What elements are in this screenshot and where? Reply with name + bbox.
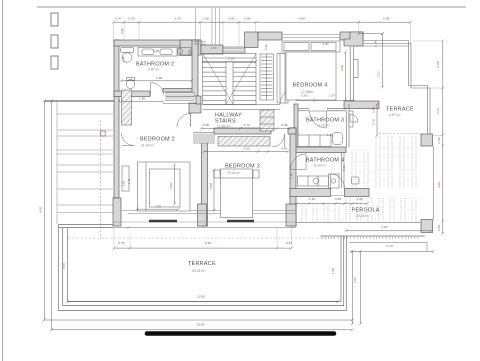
- svg-text:1.80: 1.80: [203, 17, 209, 21]
- svg-text:1,00: 1,00: [353, 277, 357, 283]
- svg-text:12,38m²: 12,38m²: [301, 90, 314, 94]
- dim SE right vertical: [351, 252, 353, 324]
- dim pergola top chain: [297, 203, 368, 205]
- dim bedroom2 bed 2.78: [137, 208, 178, 210]
- svg-text:0.83: 0.83: [301, 94, 307, 98]
- svg-text:2.38: 2.38: [383, 17, 389, 21]
- svg-text:0.70: 0.70: [372, 119, 376, 125]
- svg-text:2.80: 2.80: [228, 57, 234, 61]
- bathroom3 west wall: [294, 104, 298, 152]
- red marker box on left roof: [101, 131, 105, 136]
- chimney line d: [219, 8, 221, 45]
- svg-text:6,90: 6,90: [205, 241, 211, 245]
- svg-text:1.20: 1.20: [356, 197, 362, 201]
- bedroom3 east wall: [290, 128, 296, 226]
- svg-text:BEDROOM 4: BEDROOM 4: [293, 83, 328, 89]
- dim terrace 15.80 b: [52, 329, 353, 331]
- bedroom3 wardrobe hatch: [218, 137, 270, 147]
- dim right 2.28/2.16: [442, 41, 444, 234]
- dim terrace top 0.75/6.90/0.67: [114, 247, 291, 249]
- pergola SE column: [421, 220, 433, 233]
- west exterior wall: [114, 40, 119, 198]
- bathroom2 south wall: [114, 91, 150, 97]
- svg-text:20,46 m²: 20,46 m²: [356, 214, 370, 218]
- dim chain top: [114, 21, 411, 23]
- svg-text:3.38: 3.38: [209, 183, 213, 189]
- louver line: [57, 129, 113, 131]
- svg-text:1.35: 1.35: [290, 173, 294, 179]
- bed bedroom4 body: [286, 52, 336, 100]
- dim bedroom3 bed vertical: [213, 170, 215, 210]
- bathroom3 terrace door arc: [350, 114, 358, 122]
- south wall of bath wing west: [290, 189, 331, 197]
- bedroom2 entry door arc: [122, 133, 135, 146]
- bathroom2 door arc: [151, 83, 164, 96]
- svg-text:3,70: 3,70: [62, 263, 66, 269]
- svg-text:2.53: 2.53: [243, 147, 249, 151]
- svg-text:15,80: 15,80: [197, 322, 205, 326]
- terrace SE lower edge: [349, 243, 427, 252]
- louver line: [57, 164, 113, 166]
- bedroom2-bedroom3 divider wall: [202, 134, 208, 226]
- svg-text:3,26: 3,26: [437, 182, 441, 188]
- svg-text:0.80: 0.80: [244, 17, 250, 21]
- svg-text:1.40: 1.40: [153, 49, 159, 53]
- bathroom2 south wall east part: [163, 89, 196, 93]
- dim bedroom2 1.98: [122, 101, 164, 103]
- svg-text:11.88 m²: 11.88 m²: [217, 125, 231, 129]
- dim bathroom3 top 0.83/1.87: [297, 100, 353, 102]
- bathroom2 east wall / stair void wall: [192, 40, 198, 96]
- bedroom2 wardrobe hatch: [122, 90, 132, 125]
- svg-text:3,70: 3,70: [387, 244, 393, 248]
- upper terrace dashed edge: [379, 133, 421, 135]
- bedroom4 door arc: [280, 89, 296, 105]
- dim left outer: [51, 101, 53, 330]
- bedroom4 east window wall: [350, 46, 358, 101]
- hall-bedroom2 door stub: [189, 103, 201, 113]
- pergola bottom beam: [296, 222, 421, 224]
- bedroom4 north wall east pier: [340, 32, 363, 40]
- hall lower shelves: [260, 110, 274, 131]
- svg-text:3,60: 3,60: [381, 225, 387, 229]
- bidet bathroom2: [127, 78, 135, 81]
- terrace parapet mid: [63, 228, 344, 306]
- stair treads: [203, 57, 257, 59]
- pergola door sill: [331, 195, 345, 197]
- dim right 0.88/0.70: [376, 104, 378, 136]
- svg-text:0.36: 0.36: [437, 137, 441, 143]
- terrace NE parapet inner: [363, 44, 430, 135]
- svg-text:TERRACE: TERRACE: [386, 107, 414, 113]
- bathroom4 terrace door arc: [331, 174, 345, 188]
- svg-text:19,41 m²: 19,41 m²: [227, 171, 241, 175]
- dim hallway bottom: [202, 127, 291, 129]
- north wall corner chunk at hallway: [180, 40, 201, 55]
- svg-text:0.60: 0.60: [264, 44, 268, 50]
- svg-text:21,46 m²: 21,46 m²: [141, 144, 155, 148]
- sheet top border line: [37, 6, 466, 8]
- terrace NE parapet outer: [363, 41, 428, 135]
- svg-text:0.70: 0.70: [128, 17, 134, 21]
- svg-text:0.88: 0.88: [281, 123, 287, 127]
- dashed setback line left: [100, 120, 102, 239]
- bathroom3 north wall thin: [298, 104, 349, 147]
- bedroom4 east wall corner: [344, 32, 363, 46]
- slider panel bedroom3: [227, 220, 254, 222]
- vanity bathroom2: [138, 48, 177, 57]
- pergola east edge line: [433, 146, 435, 220]
- svg-text:1.28: 1.28: [309, 197, 315, 201]
- legend box 1: [51, 13, 58, 26]
- terrace SE upper lines: [321, 235, 425, 237]
- svg-text:1.61: 1.61: [122, 180, 126, 186]
- svg-text:4.82: 4.82: [299, 17, 305, 21]
- svg-text:0.95: 0.95: [281, 147, 287, 151]
- svg-text:2.36: 2.36: [340, 65, 344, 71]
- svg-text:0.90: 0.90: [120, 28, 124, 34]
- svg-text:5.23 m²: 5.23 m²: [314, 164, 326, 168]
- dim terrace 12.90: [68, 301, 338, 303]
- chimney line b: [211, 8, 213, 45]
- wall stub to upper terrace: [344, 101, 379, 109]
- bathroom4 east wall thin: [341, 152, 343, 188]
- terrace top edge west inner: [58, 227, 113, 229]
- bathroom3 terrace window: [349, 111, 353, 127]
- stair niche door sill: [223, 47, 245, 53]
- svg-text:0.75: 0.75: [118, 241, 124, 245]
- legend box 2: [51, 35, 58, 48]
- stair direction diagonal 1: [203, 54, 233, 104]
- railing ticks SE: [322, 236, 418, 239]
- svg-text:1.46: 1.46: [327, 133, 333, 137]
- svg-text:3.38: 3.38: [169, 183, 173, 189]
- svg-text:0.35: 0.35: [437, 225, 441, 231]
- dim small top right: [359, 33, 383, 35]
- south window pier mid: [198, 204, 207, 226]
- dim pergola 3.60: [346, 230, 431, 232]
- svg-text:0.80: 0.80: [228, 17, 234, 21]
- bed bedroom3: [221, 169, 253, 218]
- chimney line c: [215, 8, 217, 45]
- bathroom4 shower: [329, 174, 340, 188]
- svg-text:2.78: 2.78: [155, 204, 161, 208]
- bedroom2 top wardrobe: [163, 93, 196, 104]
- bedroom2/hall wall: [196, 96, 201, 104]
- bedroom2 hall door arc: [177, 114, 191, 128]
- louver line: [57, 212, 113, 214]
- svg-text:0.67: 0.67: [286, 241, 292, 245]
- window track line 1: [121, 210, 296, 212]
- svg-text:0.98: 0.98: [374, 40, 378, 46]
- svg-text:2.16: 2.16: [436, 108, 440, 114]
- louver line: [57, 153, 113, 155]
- dim right 2.11: [381, 34, 383, 87]
- svg-text:0.20: 0.20: [187, 50, 191, 56]
- stair central void: [226, 62, 233, 105]
- svg-text:2.71: 2.71: [243, 123, 249, 127]
- hallway south wall: [214, 128, 271, 134]
- stair direction diagonal 2: [226, 54, 256, 104]
- svg-text:BEDROOM 3: BEDROOM 3: [225, 164, 260, 170]
- bathroom3 door arc: [310, 111, 327, 128]
- hall wardrobe with rail: [260, 54, 274, 100]
- louver line: [57, 188, 113, 190]
- svg-text:9,87: 9,87: [39, 206, 43, 212]
- svg-text:1.98: 1.98: [139, 96, 145, 100]
- south window pier east: [286, 204, 296, 226]
- bathroom4 vanity: [298, 176, 329, 186]
- svg-text:1,35: 1,35: [331, 268, 335, 274]
- svg-text:43,34 m²: 43,34 m²: [192, 269, 206, 273]
- south wall of bath wing east: [345, 189, 370, 197]
- terrace NE floor edge: [354, 45, 409, 47]
- terrace floor inner rect: [68, 228, 341, 302]
- dim pergola 3.70: [351, 251, 433, 253]
- hall south wall east bit: [288, 128, 296, 134]
- bathroom2 window in top wall: [194, 42, 206, 45]
- svg-text:1.87: 1.87: [329, 94, 335, 98]
- terrace edge under house: [113, 226, 296, 229]
- north wall bathroom2/hall: [114, 40, 201, 46]
- svg-text:1.86: 1.86: [122, 56, 126, 62]
- bed bedroom2 inner: [150, 169, 181, 207]
- bath3/bath4 divider wall: [294, 147, 346, 153]
- svg-text:12,90: 12,90: [197, 295, 205, 299]
- svg-text:1.60: 1.60: [210, 46, 216, 50]
- dim stairs width: [203, 61, 256, 63]
- pergola rafters lower field: [301, 204, 303, 223]
- svg-text:0.80: 0.80: [335, 197, 341, 201]
- dim left height 9.87: [44, 101, 46, 320]
- red dimension texts: [39, 17, 442, 327]
- bedroom2 hall door leaf: [190, 113, 192, 127]
- svg-text:6.87 m²: 6.87 m²: [148, 68, 160, 72]
- svg-text:BEDROOM 2: BEDROOM 2: [140, 137, 175, 143]
- svg-text:2.11: 2.11: [377, 71, 381, 77]
- bedroom3 small closet ticks: [194, 133, 214, 144]
- dim terrace 15.80 a: [44, 319, 352, 321]
- house bottom face line: [113, 221, 296, 223]
- dim extension lines: [44, 23, 443, 320]
- louver line: [57, 113, 113, 115]
- bedroom2 west window strip: [122, 166, 129, 191]
- pergola NE column: [421, 134, 433, 146]
- dim bedroom3 2.53/0.95: [204, 151, 288, 153]
- louver line: [57, 135, 113, 137]
- svg-text:2.78: 2.78: [174, 17, 180, 21]
- svg-text:0.88: 0.88: [372, 107, 376, 113]
- bathroom4 door arc: [291, 154, 307, 170]
- bedroom3 door arc: [272, 134, 285, 147]
- terrace parapet outer: [58, 225, 346, 311]
- stair outline: [203, 54, 257, 105]
- bed bedroom2 outer: [138, 162, 191, 211]
- dim bedroom4 east 2.36: [345, 52, 347, 100]
- toilet bathroom2: [121, 48, 134, 53]
- sheet left border line: [2, 0, 4, 361]
- bathroom3 vanity: [298, 133, 343, 147]
- hallway north thin wall: [203, 105, 280, 110]
- dim bedroom2 bed vertical: [174, 165, 176, 204]
- legend box 3: [51, 56, 58, 69]
- stair niche parapet: [201, 45, 223, 54]
- chimney line a: [195, 8, 197, 45]
- svg-text:PERGOLA: PERGOLA: [352, 207, 380, 213]
- hall cupboard: [277, 54, 288, 104]
- svg-text:2.28: 2.28: [436, 61, 440, 67]
- louver top edge dark: [45, 100, 121, 102]
- svg-text:0.47: 0.47: [115, 17, 121, 21]
- svg-text:3.60: 3.60: [156, 76, 162, 80]
- window track line 2: [128, 213, 296, 215]
- bedroom4 north wall west pier: [245, 32, 258, 48]
- louver line: [57, 204, 113, 206]
- shower head dot bathroom2: [177, 48, 182, 53]
- svg-text:1.41: 1.41: [127, 178, 131, 184]
- svg-text:3.60: 3.60: [322, 42, 328, 46]
- west wall lower pier: [113, 198, 121, 226]
- bedroom4 window lines: [282, 35, 340, 38]
- terrace top edge west outer: [58, 224, 113, 226]
- slider panel bedroom2: [149, 220, 177, 222]
- svg-text:4,87 m²: 4,87 m²: [389, 113, 401, 117]
- svg-text:TERRACE: TERRACE: [188, 261, 216, 267]
- bed bedroom4 headboard: [282, 41, 340, 52]
- dim bathroom2 3.60: [122, 80, 192, 82]
- outdoor sink: [352, 177, 360, 184]
- bathroom3 toilet: [333, 133, 343, 145]
- louver line: [57, 171, 113, 173]
- louver line: [57, 149, 113, 151]
- terrace drainage dashed: [68, 237, 337, 239]
- pergola rafters upper field: [351, 150, 353, 188]
- svg-text:1.50: 1.50: [342, 165, 346, 171]
- louver left edge: [56, 101, 58, 225]
- bathroom3 east wall thin: [346, 111, 348, 147]
- svg-text:3.18 m²: 3.18 m²: [318, 124, 330, 128]
- svg-text:5.85: 5.85: [203, 123, 209, 127]
